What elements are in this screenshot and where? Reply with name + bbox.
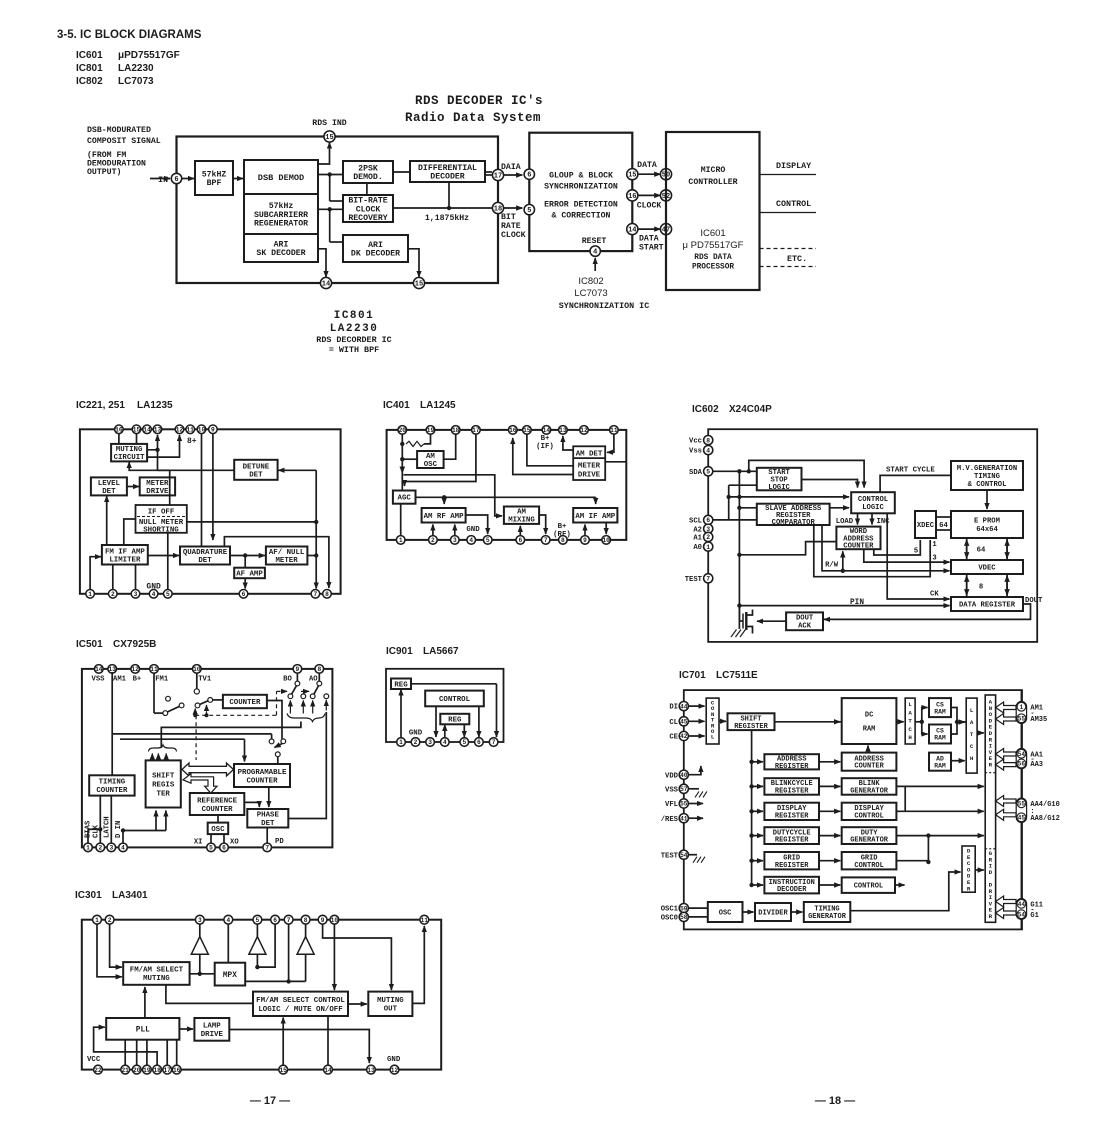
svg-text:CIRCUIT: CIRCUIT [114, 454, 146, 462]
svg-text:DET: DET [198, 557, 212, 565]
svg-text:B+: B+ [133, 676, 142, 684]
svg-text:H: H [970, 755, 974, 762]
svg-text:C: C [908, 726, 912, 733]
svg-text:CS: CS [936, 728, 944, 735]
svg-text:& CORRECTION: & CORRECTION [552, 212, 611, 221]
svg-text:7: 7 [706, 576, 710, 583]
svg-text:1: 1 [399, 537, 403, 544]
svg-text:10: 10 [602, 537, 610, 544]
svg-text:AD: AD [936, 755, 944, 762]
svg-text:REGISTER: REGISTER [775, 763, 809, 771]
svg-text:Vcc: Vcc [689, 438, 702, 446]
svg-text:13: 13 [559, 427, 567, 434]
svg-text:LA3401: LA3401 [112, 890, 148, 901]
svg-text:OSC: OSC [211, 826, 225, 834]
svg-text:MUTING: MUTING [143, 975, 170, 983]
svg-text:7: 7 [544, 537, 548, 544]
svg-text:18: 18 [153, 1067, 161, 1074]
svg-text:VSS: VSS [665, 786, 679, 794]
svg-text:DATA: DATA [639, 235, 659, 244]
svg-text:SHIFT: SHIFT [152, 773, 175, 781]
svg-text:2: 2 [108, 917, 112, 924]
svg-text:CONTROL: CONTROL [776, 199, 811, 209]
svg-text:OSC0: OSC0 [661, 915, 678, 923]
svg-text:IC701: IC701 [679, 670, 706, 681]
svg-text:22: 22 [94, 1067, 102, 1074]
svg-text:TV1: TV1 [198, 676, 212, 684]
svg-text:REG: REG [394, 681, 408, 689]
svg-text:COUNTER: COUNTER [246, 777, 278, 785]
svg-text:5: 5 [486, 537, 490, 544]
svg-text:CLK: CLK [93, 824, 101, 838]
svg-text:DECODER: DECODER [777, 886, 807, 894]
svg-text:DATA: DATA [637, 161, 657, 170]
svg-text:REGISTER: REGISTER [734, 723, 768, 731]
svg-text:LAMP: LAMP [203, 1023, 221, 1031]
svg-text:D: D [989, 869, 993, 876]
svg-text:TEST: TEST [685, 576, 703, 584]
svg-text:5: 5 [462, 739, 466, 746]
svg-text:TER: TER [157, 791, 171, 799]
svg-text:59: 59 [680, 905, 688, 912]
svg-text:44: 44 [1018, 901, 1026, 908]
svg-text:12: 12 [580, 427, 588, 434]
svg-text:ACK: ACK [798, 623, 812, 631]
svg-text:RAM: RAM [934, 735, 946, 742]
svg-text:RAM: RAM [863, 725, 876, 733]
svg-text:TEST: TEST [661, 852, 679, 860]
svg-text:10: 10 [198, 427, 206, 434]
svg-text:= WITH BPF: = WITH BPF [329, 345, 379, 355]
svg-text:& CONTROL: & CONTROL [968, 481, 1007, 489]
svg-text:IC802: IC802 [578, 276, 603, 287]
svg-text:μPD75517GF: μPD75517GF [118, 50, 180, 61]
svg-text:— 18 —: — 18 — [815, 1095, 855, 1107]
svg-text:CL: CL [669, 719, 678, 727]
svg-text:14: 14 [543, 427, 551, 434]
svg-text:R/W: R/W [825, 562, 839, 570]
svg-text:SDA: SDA [689, 469, 703, 477]
svg-text:LOGIC / MUTE ON/OFF: LOGIC / MUTE ON/OFF [258, 1006, 342, 1014]
svg-text:17: 17 [494, 173, 502, 181]
svg-text:H: H [908, 734, 912, 741]
svg-text:CONTROLLER: CONTROLLER [688, 178, 737, 187]
svg-text:A: A [970, 719, 974, 726]
svg-text:9: 9 [296, 666, 300, 673]
svg-text:15: 15 [628, 172, 636, 180]
svg-text:57kHz: 57kHz [269, 201, 294, 211]
svg-text:12: 12 [131, 666, 139, 673]
svg-text:58: 58 [680, 914, 688, 921]
svg-text:VFL: VFL [665, 801, 678, 809]
svg-text:(RF): (RF) [553, 531, 571, 539]
svg-text:REGISTER: REGISTER [775, 812, 809, 820]
svg-text:μ PD75517GF: μ PD75517GF [683, 240, 744, 251]
svg-text:RDS DATA: RDS DATA [694, 254, 732, 262]
svg-text:IC401: IC401 [383, 400, 410, 411]
svg-text:B+: B+ [541, 435, 550, 443]
svg-text:LC7511E: LC7511E [716, 670, 758, 681]
svg-text:18: 18 [452, 427, 460, 434]
svg-text:LEVEL: LEVEL [98, 480, 121, 488]
svg-text:GND: GND [466, 526, 480, 534]
svg-text:G1: G1 [1030, 912, 1038, 920]
svg-text:(IF): (IF) [536, 443, 554, 451]
svg-text:OSC1: OSC1 [661, 906, 679, 914]
svg-text:DI: DI [669, 704, 678, 712]
svg-text:IC301: IC301 [75, 890, 102, 901]
svg-text:ETC.: ETC. [787, 254, 807, 264]
svg-text:XDEC: XDEC [917, 522, 935, 530]
svg-text:IC801: IC801 [334, 310, 375, 322]
svg-text:DRIVE: DRIVE [578, 472, 601, 480]
svg-text:17: 17 [163, 1067, 171, 1074]
svg-text:DSB-MODURATED: DSB-MODURATED [87, 126, 151, 135]
svg-text:1: 1 [86, 845, 90, 852]
svg-text:FM/AM SELECT CONTROL: FM/AM SELECT CONTROL [256, 997, 345, 1005]
svg-text:R: R [989, 762, 993, 769]
svg-text:4: 4 [121, 845, 125, 852]
svg-text:IC501: IC501 [76, 639, 103, 650]
svg-text:7: 7 [287, 917, 291, 924]
svg-text:COMPARATOR: COMPARATOR [772, 519, 816, 527]
svg-text:SK DECODER: SK DECODER [256, 249, 305, 258]
svg-text:FM1: FM1 [155, 676, 169, 684]
svg-text:AM35: AM35 [1030, 716, 1047, 724]
svg-text:DISPLAY: DISPLAY [776, 161, 812, 171]
svg-text:PD: PD [275, 838, 284, 846]
svg-text:IF OFF: IF OFF [148, 509, 175, 517]
svg-text:METER: METER [276, 557, 299, 565]
svg-text:4: 4 [443, 739, 447, 746]
svg-text:A0: A0 [693, 544, 702, 552]
svg-text:1: 1 [706, 544, 710, 551]
svg-text:3: 3 [109, 845, 113, 852]
svg-text:RAM: RAM [934, 708, 946, 715]
svg-text:CX7925B: CX7925B [113, 639, 156, 650]
svg-text:FM/AM SELECT: FM/AM SELECT [130, 967, 184, 975]
svg-text:D IN: D IN [115, 821, 123, 838]
svg-text:1: 1 [399, 739, 403, 746]
svg-text:57kHZ: 57kHZ [202, 169, 227, 179]
svg-text:START: START [639, 244, 664, 253]
svg-text:3: 3 [198, 917, 202, 924]
svg-text:M.V.GENERATION: M.V.GENERATION [957, 465, 1017, 473]
svg-text:8+: 8+ [187, 437, 197, 446]
svg-text:11: 11 [150, 666, 158, 673]
svg-text:TIMING: TIMING [974, 473, 1000, 481]
svg-text:6: 6 [242, 591, 246, 598]
svg-text:7: 7 [492, 739, 496, 746]
svg-text:R: R [989, 913, 993, 920]
svg-text:CS: CS [936, 701, 944, 708]
svg-text:5: 5 [706, 469, 710, 476]
svg-text:3-5. IC BLOCK DIAGRAMS: 3-5. IC BLOCK DIAGRAMS [57, 29, 202, 41]
svg-text:LIMITER: LIMITER [109, 556, 141, 564]
svg-text:VCC: VCC [87, 1056, 101, 1064]
svg-text:DRIVE: DRIVE [201, 1031, 224, 1039]
svg-text:OUT: OUT [384, 1006, 398, 1014]
svg-text:RDS DECORDER IC: RDS DECORDER IC [316, 335, 391, 345]
svg-text:CONTROL: CONTROL [858, 496, 888, 504]
svg-text:BIAS: BIAS [85, 820, 93, 838]
svg-text:AM: AM [426, 453, 435, 461]
svg-text:14: 14 [143, 427, 151, 434]
svg-text:AF AMP: AF AMP [236, 571, 263, 579]
svg-text:2: 2 [111, 591, 115, 598]
svg-text:X24C04P: X24C04P [729, 404, 772, 415]
svg-text:LC7073: LC7073 [574, 288, 607, 299]
svg-text:6: 6 [477, 739, 481, 746]
svg-text:REGISTER: REGISTER [775, 788, 809, 796]
svg-text:COMPOSIT SIGNAL: COMPOSIT SIGNAL [87, 137, 161, 146]
svg-text:LA1245: LA1245 [420, 400, 456, 411]
svg-text:6: 6 [706, 517, 710, 524]
svg-text:LC7073: LC7073 [118, 76, 154, 87]
svg-text:12: 12 [176, 427, 184, 434]
svg-text:6: 6 [527, 172, 531, 180]
svg-text:MUTING: MUTING [116, 446, 143, 454]
svg-text:QUADRATURE: QUADRATURE [183, 549, 228, 557]
svg-text:SYNCHRONIZATION: SYNCHRONIZATION [544, 183, 618, 192]
svg-text:8: 8 [706, 437, 710, 444]
svg-text:13: 13 [367, 1067, 375, 1074]
svg-text:METER: METER [146, 480, 169, 488]
svg-text:SUBCARRIERR: SUBCARRIERR [254, 211, 308, 220]
svg-text:XO: XO [230, 839, 239, 847]
svg-text:DK DECODER: DK DECODER [351, 250, 400, 259]
svg-text:15: 15 [133, 427, 141, 434]
svg-text:2: 2 [414, 739, 418, 746]
svg-text:9: 9 [321, 917, 325, 924]
svg-text:14: 14 [322, 281, 330, 289]
svg-text:BIT: BIT [501, 213, 516, 222]
svg-text:RAM: RAM [934, 762, 946, 769]
svg-text:MUTING: MUTING [377, 997, 404, 1005]
svg-text:IC602: IC602 [692, 404, 719, 415]
svg-text:PHASE: PHASE [257, 812, 280, 820]
svg-text:IC601: IC601 [76, 50, 103, 61]
svg-text:(FROM FM: (FROM FM [87, 150, 126, 160]
svg-text:12: 12 [391, 1067, 399, 1074]
svg-text:16: 16 [115, 427, 123, 434]
svg-text:AA3: AA3 [1030, 761, 1043, 769]
svg-text:LA1235: LA1235 [137, 400, 173, 411]
svg-text:L: L [908, 701, 912, 708]
svg-text:OUTPUT): OUTPUT) [87, 167, 121, 177]
svg-text:1: 1 [95, 917, 99, 924]
svg-text:DIVIDER: DIVIDER [758, 909, 788, 917]
svg-text:T: T [970, 731, 974, 738]
svg-text:DRIVE: DRIVE [146, 488, 169, 496]
svg-text:PROGRAMABLE: PROGRAMABLE [238, 769, 287, 777]
svg-text:TIMING: TIMING [99, 779, 126, 787]
svg-text:CLOCK: CLOCK [501, 231, 526, 240]
svg-text:IC801: IC801 [76, 63, 103, 74]
svg-text:BPF: BPF [207, 179, 222, 188]
svg-text:14: 14 [324, 1067, 332, 1074]
svg-text:RECOVERY: RECOVERY [348, 214, 387, 223]
svg-text:5: 5 [209, 845, 213, 852]
svg-text:54: 54 [680, 852, 688, 859]
svg-text:— 17 —: — 17 — [250, 1095, 290, 1107]
svg-text:CONTROL: CONTROL [854, 862, 883, 870]
svg-text:4: 4 [593, 249, 597, 257]
svg-text:54: 54 [1018, 751, 1026, 758]
svg-text:C: C [970, 743, 974, 750]
svg-text:1: 1 [1020, 704, 1024, 711]
svg-text:45: 45 [1018, 815, 1026, 822]
svg-text:8: 8 [317, 666, 321, 673]
svg-text:CONTROL: CONTROL [854, 883, 883, 891]
svg-text:A2: A2 [693, 526, 702, 534]
svg-text:COUNTER: COUNTER [229, 699, 261, 707]
svg-text:SYNCHRONIZATION IC: SYNCHRONIZATION IC [559, 301, 649, 311]
svg-text:Vss: Vss [689, 448, 702, 456]
svg-text:4: 4 [706, 447, 710, 454]
svg-text:11: 11 [421, 917, 429, 924]
svg-text:MICRO: MICRO [701, 166, 726, 175]
svg-text:10: 10 [331, 917, 339, 924]
svg-text:7: 7 [314, 591, 318, 598]
svg-text:19: 19 [143, 1067, 151, 1074]
svg-text:DSB DEMOD: DSB DEMOD [258, 173, 304, 183]
svg-text:MIXING: MIXING [508, 517, 535, 525]
svg-text:LA2230: LA2230 [118, 63, 154, 74]
svg-text:RDS IND: RDS IND [312, 119, 346, 128]
svg-text:DET: DET [102, 488, 116, 496]
svg-text:L: L [711, 734, 715, 741]
svg-text:55: 55 [680, 801, 688, 808]
svg-text:10: 10 [193, 666, 201, 673]
svg-text:A1: A1 [693, 535, 702, 543]
svg-text:OSC: OSC [719, 909, 732, 917]
svg-text:44: 44 [680, 703, 688, 710]
svg-text:41: 41 [680, 815, 688, 822]
svg-text:L: L [970, 707, 974, 714]
svg-text:15: 15 [523, 427, 531, 434]
svg-text:IC901: IC901 [386, 646, 413, 657]
svg-text:6: 6 [222, 845, 226, 852]
svg-text:1,1875kHz: 1,1875kHz [425, 213, 469, 223]
svg-text:GENERATOR: GENERATOR [850, 788, 889, 796]
svg-text:1: 1 [88, 591, 92, 598]
svg-text:VDEC: VDEC [978, 564, 996, 572]
svg-text:DEMOD.: DEMOD. [353, 173, 382, 182]
svg-text:T: T [908, 718, 912, 725]
svg-text:40: 40 [680, 772, 688, 779]
svg-text:15: 15 [279, 1067, 287, 1074]
svg-text:1: 1 [932, 541, 937, 549]
svg-text:15: 15 [415, 281, 423, 289]
svg-text:COUNTER: COUNTER [202, 806, 234, 814]
svg-text:/RES: /RES [661, 816, 679, 824]
svg-text:B+: B+ [558, 523, 567, 531]
svg-text:8: 8 [304, 917, 308, 924]
svg-text:AA8/G12: AA8/G12 [1030, 815, 1059, 823]
svg-text:FM IF AMP: FM IF AMP [105, 548, 145, 556]
svg-text:R: R [967, 885, 971, 892]
svg-text:14: 14 [628, 227, 636, 235]
svg-text:DC: DC [865, 711, 873, 719]
svg-text:20: 20 [133, 1067, 141, 1074]
svg-text:DETUNE: DETUNE [243, 463, 270, 471]
svg-text:GND: GND [387, 1056, 401, 1064]
svg-text:VSS: VSS [92, 676, 106, 684]
svg-text:64: 64 [939, 522, 948, 530]
svg-text:6: 6 [273, 917, 277, 924]
svg-text:19: 19 [427, 427, 435, 434]
svg-text:CONTROL: CONTROL [439, 696, 471, 704]
svg-text:ERROR DETECTION: ERROR DETECTION [544, 201, 618, 210]
svg-text:INC: INC [877, 518, 891, 526]
svg-text:OSC: OSC [424, 461, 438, 469]
svg-text:A: A [908, 709, 912, 716]
svg-text:LA2230: LA2230 [330, 323, 379, 335]
svg-text:REG: REG [448, 717, 462, 725]
svg-text:2: 2 [706, 534, 710, 541]
svg-text:11: 11 [186, 427, 194, 434]
svg-text:2: 2 [431, 537, 435, 544]
svg-text:6: 6 [518, 537, 522, 544]
svg-text:REGENERATOR: REGENERATOR [254, 220, 308, 229]
svg-text:PROCESSOR: PROCESSOR [692, 264, 734, 272]
svg-text:ARI: ARI [274, 240, 289, 249]
svg-text:LOAD: LOAD [836, 518, 854, 526]
svg-text:57: 57 [680, 786, 688, 793]
svg-text:IC221, 251: IC221, 251 [76, 400, 125, 411]
svg-text:5: 5 [166, 591, 170, 598]
svg-text:RESET: RESET [582, 237, 607, 246]
svg-text:3: 3 [453, 537, 457, 544]
svg-text:DET: DET [261, 820, 275, 828]
svg-text:2: 2 [98, 845, 102, 852]
svg-text:ARI: ARI [368, 241, 383, 250]
svg-text:RATE: RATE [501, 222, 521, 231]
svg-text:21: 21 [121, 1067, 129, 1074]
svg-text:42: 42 [680, 733, 688, 740]
svg-text:DIFFERENTIAL: DIFFERENTIAL [418, 164, 477, 173]
svg-text:SCL: SCL [689, 518, 702, 526]
svg-text:4: 4 [469, 537, 473, 544]
svg-text:AA4/G10: AA4/G10 [1030, 801, 1059, 809]
svg-text:4: 4 [226, 917, 230, 924]
svg-text:REGISTER: REGISTER [775, 837, 809, 845]
svg-text:REFERENCE: REFERENCE [197, 797, 237, 805]
svg-text:IC601: IC601 [700, 228, 725, 239]
svg-text:CONTROL: CONTROL [854, 812, 883, 820]
svg-text:13: 13 [154, 427, 162, 434]
svg-text:XI: XI [194, 839, 203, 847]
svg-text:REGISTER: REGISTER [775, 862, 809, 870]
svg-text:IN: IN [158, 176, 168, 185]
svg-text:16: 16 [509, 427, 517, 434]
svg-text:AGC: AGC [398, 495, 412, 503]
svg-text:LOGIC: LOGIC [768, 484, 790, 492]
svg-text:CLOCK: CLOCK [637, 202, 662, 211]
svg-text:3: 3 [134, 591, 138, 598]
svg-text:GLOUP & BLOCK: GLOUP & BLOCK [549, 172, 613, 181]
svg-text:GENERATOR: GENERATOR [850, 837, 889, 845]
svg-text:9: 9 [211, 427, 215, 434]
svg-text:16: 16 [173, 1067, 181, 1074]
svg-text:4: 4 [152, 591, 156, 598]
svg-text:GND: GND [146, 583, 161, 592]
svg-text:COUNTER: COUNTER [96, 787, 128, 795]
svg-text:3: 3 [428, 739, 432, 746]
svg-text:Radio Data System: Radio Data System [405, 111, 541, 125]
svg-text:AM IF AMP: AM IF AMP [575, 513, 615, 521]
